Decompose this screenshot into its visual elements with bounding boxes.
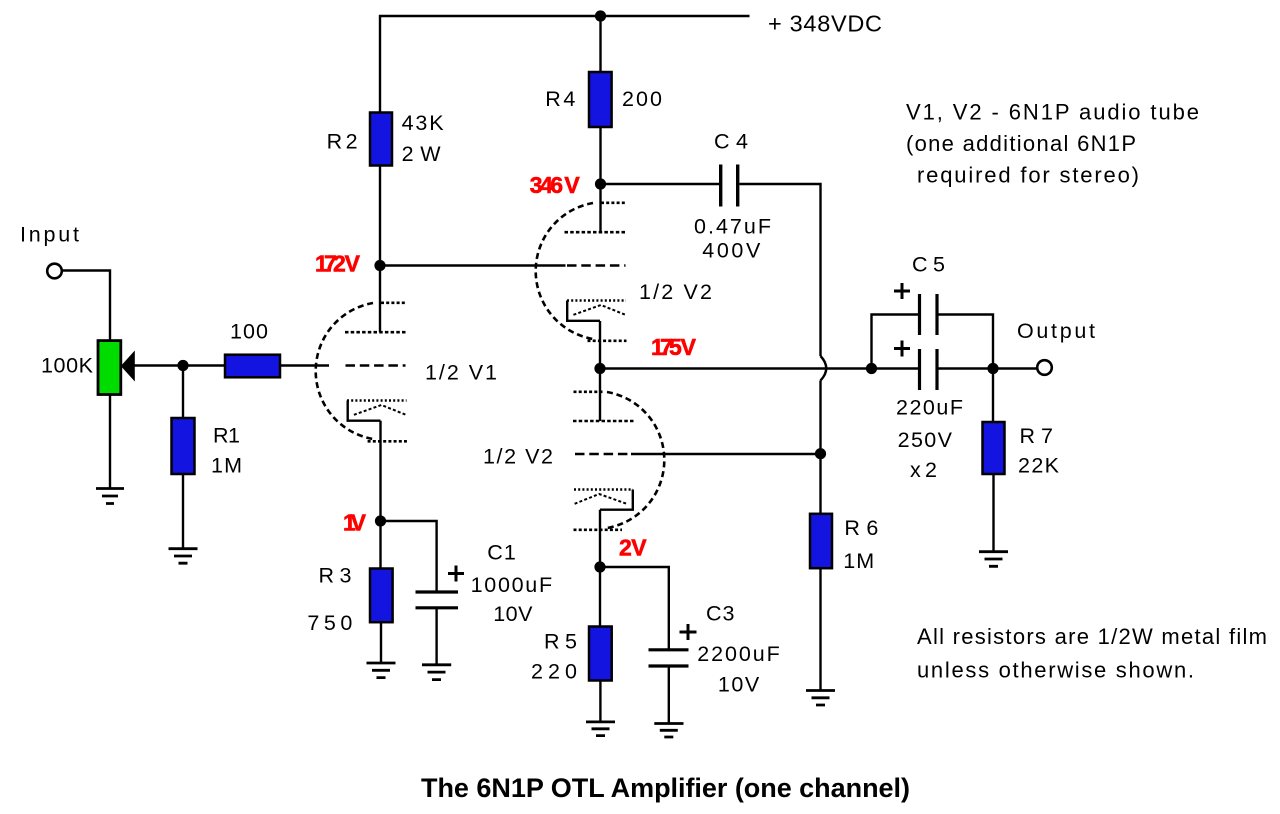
tube V2 lower plate [573, 420, 636, 423]
tube V2 upper cathode top [567, 299, 626, 301]
resistor R7 22K [983, 422, 1005, 474]
wire V1 cathode to 1V node and R3 [379, 421, 381, 569]
svg-text:200: 200 [622, 87, 662, 111]
ground R6 [806, 691, 835, 706]
output terminal [1037, 360, 1052, 375]
svg-text:400V: 400V [702, 239, 761, 263]
resistor R2 43K 2W [370, 113, 392, 166]
wire C4 to R6 column corner [740, 184, 821, 356]
svg-text:2W: 2W [402, 142, 442, 166]
tube V2 lower cathode top [574, 488, 633, 490]
wire R6 column below hop to junction and R6 [819, 381, 821, 514]
wire R1 bottom to ground [182, 474, 184, 549]
tube V1 plate [345, 331, 407, 334]
wire 2V node to C3 branch [600, 567, 669, 649]
junction output node [987, 363, 998, 374]
wire input terminal to pot [62, 271, 110, 341]
wire wiper to 100 ohm resistor [135, 364, 226, 366]
ground R3 [367, 663, 396, 678]
tube V2 lower envelope arc [607, 392, 664, 528]
svg-text:43K: 43K [402, 111, 445, 135]
wire R3 bottom to ground [380, 622, 382, 663]
svg-text:750: 750 [307, 611, 352, 635]
junction 346V node [595, 178, 606, 189]
wire 172V node to V2 grid [380, 264, 566, 266]
tube V2 upper plate [565, 231, 627, 234]
svg-text:175 V: 175 V [651, 334, 697, 360]
wire R5 bottom to ground [599, 681, 601, 722]
svg-text:1/2 V1: 1/2 V1 [425, 361, 497, 385]
svg-text:250V: 250V [898, 428, 953, 452]
svg-text:R1: R1 [213, 424, 240, 448]
svg-text:The 6N1P OTL Amplifier (one ch: The 6N1P OTL Amplifier (one channel) [421, 773, 910, 803]
svg-text:unless otherwise shown.: unless otherwise shown. [917, 658, 1194, 683]
capacitor C1 plus [448, 566, 464, 582]
capacitor C5 lower plates [918, 349, 921, 390]
tube V1 cathode caret [354, 405, 406, 415]
tube V2 lower top row [574, 390, 605, 393]
wire V2 lower plate lead [599, 369, 601, 422]
wire top supply rail [380, 16, 750, 113]
resistor R1 1M [172, 418, 195, 474]
capacitor C5 upper plus [894, 283, 910, 299]
TUBES [316, 203, 665, 530]
svg-text:1/2 V2: 1/2 V2 [483, 445, 553, 469]
tube V2 upper bottom row [588, 339, 627, 342]
svg-text:1/2 V2: 1/2 V2 [639, 280, 712, 304]
tube V1 cathode top [347, 399, 407, 401]
tube V2 upper envelope arc [536, 203, 593, 339]
svg-text:required for stereo): required for stereo) [917, 163, 1139, 188]
wire V2 lower grid to R6 column [631, 453, 821, 455]
junction V2 grid / R6 node [815, 448, 826, 459]
tube V2 upper cathode caret [573, 305, 625, 315]
ground R7 [979, 552, 1008, 567]
junction 2V node [594, 561, 605, 572]
junction 1V node [375, 515, 386, 526]
wire R7 bottom to ground [992, 474, 994, 552]
svg-text:1M: 1M [211, 454, 242, 478]
wire 175V node to C5 [600, 367, 919, 369]
svg-text:10V: 10V [718, 673, 760, 697]
tube V2 upper top row [601, 202, 627, 205]
junction input node [177, 360, 188, 371]
svg-text:100: 100 [230, 320, 268, 344]
wire hop over 175V line [821, 356, 827, 381]
svg-text:10V: 10V [493, 602, 533, 626]
resistor R5 220 [589, 627, 612, 681]
svg-text:Output: Output [1017, 319, 1095, 343]
svg-text:V1, V2 - 6N1P audio tube: V1, V2 - 6N1P audio tube [906, 100, 1199, 125]
tube V1 grid [346, 364, 406, 367]
svg-text:+ 348VDC: + 348VDC [768, 11, 882, 37]
junction 172V node [374, 260, 385, 271]
tube V1 bottom row [368, 440, 407, 443]
wire V2 upper cathode to 175V node [599, 321, 601, 369]
capacitor C5 lower plus [894, 341, 910, 357]
wire R1 branch down [182, 366, 184, 419]
svg-text:1V: 1V [343, 510, 367, 536]
svg-text:220uF: 220uF [896, 396, 963, 420]
tube V2 lower bottom row [574, 528, 623, 531]
wire 1V node to C1 branch [381, 521, 437, 591]
svg-text:C1: C1 [487, 541, 516, 565]
ground R1 [169, 549, 198, 564]
ground C1 [422, 665, 451, 680]
tube V2 lower grid [575, 453, 630, 456]
wire R2 bottom to 172V node and V1 plate [379, 166, 381, 332]
svg-text:100K: 100K [41, 354, 94, 378]
wire C5 to output terminal [939, 367, 1037, 369]
wire 100 ohm to V1 grid [280, 364, 329, 366]
wire V2 lower cathode to 2V node and R5 [599, 510, 601, 627]
junction C5 left [866, 363, 877, 374]
ground C3 [654, 724, 683, 738]
input terminal [47, 264, 62, 279]
tube V2 lower cathode caret [575, 494, 627, 504]
svg-text:All resistors are 1/2W metal f: All resistors are 1/2W metal film [917, 624, 1267, 649]
tube V2 upper cathode step [567, 301, 600, 321]
svg-text:0.47uF: 0.47uF [694, 215, 771, 239]
svg-text:C3: C3 [706, 602, 735, 626]
svg-text:220: 220 [531, 660, 577, 684]
svg-text:Input: Input [20, 223, 79, 247]
tube V1 top row [381, 301, 407, 304]
svg-text:2V: 2V [619, 535, 647, 561]
capacitor C3 plus [680, 624, 697, 640]
tube V2 upper grid [567, 264, 626, 267]
resistor R3 750 [370, 569, 393, 623]
svg-text:R4: R4 [545, 87, 575, 111]
svg-text:346 V: 346 V [530, 172, 581, 198]
wire 346V node to C4 [601, 183, 720, 185]
wire output node to R7 [992, 369, 994, 423]
ground R5 [586, 722, 615, 736]
potentiometer wiper arrow [121, 351, 135, 382]
junction 175V node [594, 363, 605, 374]
svg-text:172 V: 172 V [315, 251, 361, 277]
capacitor C1 plates [416, 590, 459, 593]
wire R4 bottom to 346V node and V2 plate [599, 127, 601, 232]
svg-text:1M: 1M [843, 549, 874, 573]
capacitor C4 plates [719, 165, 722, 207]
potentiometer 100K body [98, 341, 121, 395]
wire C3 bottom to ground [668, 667, 670, 724]
ground pot [96, 489, 124, 504]
wire R6 bottom to ground [819, 568, 821, 690]
tube V2 lower cathode step [600, 490, 633, 510]
wire pot bottom to ground [109, 395, 111, 489]
capacitor C5 upper plates [918, 294, 921, 335]
wire R4 top feed [599, 16, 601, 72]
junction 348VDC rail [595, 10, 606, 21]
svg-text:R2: R2 [327, 130, 358, 154]
capacitor C3 plates [649, 648, 689, 651]
wire C1 bottom to ground [435, 609, 437, 665]
resistor R6 1M [810, 514, 832, 568]
svg-text:22K: 22K [1018, 454, 1060, 478]
wire C5 parallel top branch [872, 315, 919, 369]
resistor R4 200 [589, 72, 612, 127]
resistor 100 (input stopper) [225, 355, 280, 378]
tube V1 envelope arc [316, 303, 373, 439]
tube V1 cathode step [348, 401, 381, 421]
